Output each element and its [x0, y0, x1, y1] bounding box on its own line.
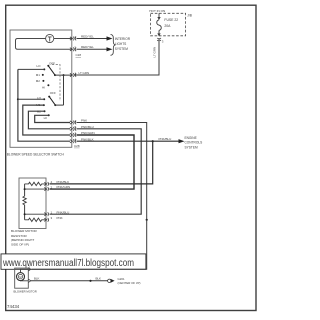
wire RED/YEL lower: [77, 48, 108, 50]
motor pin 1: [28, 279, 30, 282]
motor pin 2: [28, 268, 30, 271]
svg-text:HOT IN ON: HOT IN ON: [149, 9, 165, 13]
pin PNK/GRN: [70, 133, 76, 137]
svg-text:CONTROLS: CONTROLS: [185, 141, 203, 145]
top wafer arm: [48, 66, 55, 75]
svg-text:M1: M1: [36, 73, 40, 77]
pin 2 bulb: [70, 47, 76, 51]
wire BLK to ground: [31, 280, 108, 282]
svg-text:BLK: BLK: [34, 276, 40, 280]
wire PNK/BLK drop to resistor: [50, 141, 153, 184]
illumination bulb loop: [16, 39, 72, 50]
node common link: [63, 74, 65, 76]
svg-text:RESISTOR: RESISTOR: [11, 234, 28, 238]
arrow engine controls: [179, 139, 185, 143]
svg-text:C28: C28: [76, 53, 82, 57]
svg-text:LT GRN: LT GRN: [153, 47, 157, 58]
resistor row pin2 PNK/GRN: [25, 188, 46, 190]
wire pivot to pin: [55, 74, 72, 76]
svg-text:74434: 74434: [7, 304, 20, 309]
resistor pins: [44, 182, 48, 222]
svg-text:J/B: J/B: [187, 13, 192, 17]
bottom wafer contacts: [43, 96, 50, 117]
watermark box: [1, 254, 146, 269]
wire common link vertical: [63, 75, 65, 105]
svg-text:FUSE 22: FUSE 22: [164, 18, 178, 22]
wire PNK/BLU: [50, 129, 142, 214]
blower speed selector switch box: [10, 30, 72, 147]
fuse box (junction block) dashed: [151, 13, 186, 36]
fuse output pin: [157, 38, 161, 41]
svg-text:PNK/BLU: PNK/BLU: [57, 210, 70, 214]
svg-text:BLOWER SPEED SELECTOR SWITCH: BLOWER SPEED SELECTOR SWITCH: [7, 153, 65, 157]
node PNK to motor: [146, 219, 148, 221]
wire LO top to bus: [18, 68, 44, 70]
wire bottom LO to bus: [18, 98, 44, 100]
svg-text:20A: 20A: [164, 24, 171, 28]
illumination bulb: [46, 34, 54, 42]
svg-text:BLK: BLK: [96, 276, 102, 280]
pin 1 bulb: [70, 37, 76, 41]
wire M2 nested: [28, 111, 70, 129]
svg-text:BLOWER MOTOR: BLOWER MOTOR: [11, 229, 37, 233]
wire LT GRN vertical from fuse: [74, 41, 159, 76]
svg-text:INTERIOR: INTERIOR: [115, 37, 131, 41]
motor top lead: [21, 269, 29, 272]
svg-text:ENGINE: ENGINE: [185, 136, 197, 140]
motor bottom lead: [21, 280, 29, 282]
svg-text:OFF: OFF: [50, 91, 56, 95]
top wafer contacts: [42, 65, 50, 86]
svg-text:LO: LO: [37, 64, 42, 68]
pin PNK/BLK: [70, 139, 76, 143]
svg-text:SIDE OF I/P): SIDE OF I/P): [11, 243, 29, 247]
svg-text:SYSTEM: SYSTEM: [115, 47, 128, 51]
node PNK/BLK split: [152, 140, 154, 142]
fuse 22: [157, 13, 162, 34]
svg-text:PNK/GRN: PNK/GRN: [57, 185, 71, 189]
svg-text:HI: HI: [42, 85, 45, 89]
svg-text:HI: HI: [44, 116, 47, 120]
wire bottom pivot to link: [55, 104, 63, 106]
arrow to interior lights 1: [107, 36, 113, 40]
border frame: [6, 5, 256, 310]
svg-text:SYSTEM: SYSTEM: [185, 145, 198, 149]
resistor rail: [24, 184, 26, 220]
svg-text:G201: G201: [118, 277, 125, 281]
svg-text:RED/YEL: RED/YEL: [81, 45, 94, 49]
pin PNK/BLU: [70, 127, 76, 131]
arrow to interior lights 2: [107, 47, 113, 51]
svg-text:BLOWER MOTOR: BLOWER MOTOR: [14, 289, 37, 293]
svg-text:PNK/BLK: PNK/BLK: [57, 180, 70, 184]
blower motor resistor box: [19, 178, 46, 229]
blower motor symbol: [17, 273, 25, 281]
resistor row pin4 PNK/BLK: [25, 182, 46, 185]
wire PNK/BLK: [77, 140, 180, 142]
wire PNK: [77, 123, 147, 220]
svg-text:(BEHIND RIGHT: (BEHIND RIGHT: [11, 238, 34, 242]
svg-text:M2: M2: [36, 79, 40, 83]
wire M1 nested: [23, 105, 70, 135]
wire PNK down to motor: [32, 220, 147, 269]
bus wire vertical: [18, 69, 70, 141]
svg-text:www.qwnersmanuall7l.blogspot.c: www.qwnersmanuall7l.blogspot.com: [2, 258, 134, 269]
blower motor box: [15, 268, 29, 288]
resistor row pin3 PNK: [25, 218, 46, 221]
svg-text:LIGHTS: LIGHTS: [115, 42, 127, 46]
svg-text:RED/YEL: RED/YEL: [81, 34, 94, 38]
svg-text:PNK: PNK: [57, 216, 63, 220]
brace interior lights: [111, 35, 116, 56]
svg-text:OFF: OFF: [49, 62, 55, 66]
wire PNK/GRN: [50, 135, 135, 189]
mechanical link dashed: [52, 65, 60, 102]
wire HI nested: [35, 115, 70, 122]
wire RED/YEL to interior lights: [77, 38, 108, 40]
svg-text:C28: C28: [74, 144, 80, 148]
svg-text:(CENTER OF I/P): (CENTER OF I/P): [118, 281, 141, 285]
pin PNK: [70, 121, 76, 125]
resistor element vertical: [23, 196, 26, 205]
resistor row pin1 PNK/BLU: [25, 213, 46, 215]
ground G201: [108, 279, 111, 282]
splice node: [89, 280, 91, 282]
node bus LO: [17, 98, 19, 100]
pin LT GRN at switch: [70, 73, 76, 77]
svg-text:PNK/BLU: PNK/BLU: [159, 137, 172, 141]
bottom wafer arm: [49, 97, 55, 106]
svg-text:LT GRN: LT GRN: [79, 71, 90, 75]
